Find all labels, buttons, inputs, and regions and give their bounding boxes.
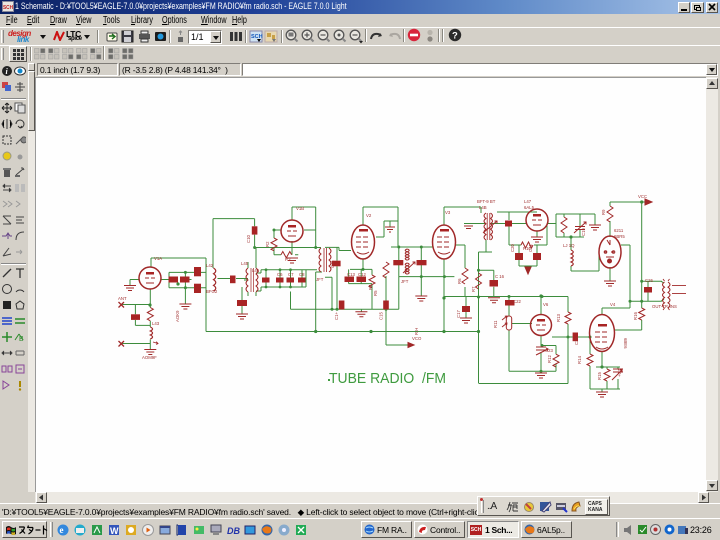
- svg-text:C26: C26: [645, 278, 653, 283]
- svg-text:C13: C13: [347, 272, 355, 277]
- svg-text:L43: L43: [152, 321, 160, 326]
- svg-text:V3: V3: [445, 210, 451, 215]
- svg-text:6BR5: 6BR5: [614, 234, 625, 239]
- svg-text:C25: C25: [574, 337, 579, 345]
- svg-text:R10: R10: [523, 246, 531, 251]
- svg-text:R16: R16: [633, 312, 638, 320]
- svg-text:OUT-TRANS: OUT-TRANS: [652, 304, 677, 309]
- svg-text:TUBE RADIO /FM: TUBE RADIO /FM: [329, 370, 446, 387]
- svg-text:V1A: V1A: [154, 256, 162, 261]
- svg-text:C11: C11: [330, 260, 335, 268]
- svg-text:V4: V4: [610, 302, 616, 307]
- svg-text:R14: R14: [577, 356, 582, 364]
- svg-text:R3: R3: [285, 257, 291, 262]
- svg-text:ANT: ANT: [118, 296, 127, 301]
- svg-text:C7: C7: [288, 272, 294, 277]
- svg-text:L47: L47: [524, 199, 532, 204]
- svg-text:AOM9F: AOM9F: [142, 355, 157, 360]
- svg-text:C6: C6: [277, 272, 283, 277]
- svg-text:R13: R13: [556, 314, 561, 322]
- svg-text:R15: R15: [597, 372, 602, 380]
- svg-text:C22: C22: [513, 299, 521, 304]
- svg-text:R6: R6: [457, 278, 462, 284]
- svg-text:L4B: L4B: [479, 205, 487, 210]
- svg-text:VCC: VCC: [638, 194, 647, 199]
- svg-text:V2: V2: [366, 213, 372, 218]
- svg-text:e: e: [60, 525, 64, 535]
- svg-text:R2: R2: [265, 241, 270, 247]
- svg-text:R5: R5: [373, 290, 378, 296]
- svg-text:R.H: R.H: [414, 328, 419, 335]
- svg-text:6211: 6211: [614, 228, 624, 233]
- svg-text:6BE6: 6BE6: [623, 338, 628, 349]
- svg-text:LJ 1Q: LJ 1Q: [563, 243, 575, 248]
- svg-text:6AL5: 6AL5: [524, 205, 535, 210]
- svg-text:JFT: JFT: [401, 279, 409, 284]
- svg-text:VCO: VCO: [412, 336, 422, 341]
- svg-text:V6: V6: [543, 302, 549, 307]
- svg-text:AOK9: AOK9: [175, 310, 180, 322]
- svg-text:W: W: [110, 526, 119, 536]
- svg-text:DB: DB: [227, 526, 240, 536]
- svg-text:+C7: +C7: [617, 368, 622, 377]
- svg-text:C20: C20: [510, 244, 515, 252]
- svg-text:B: B: [19, 336, 24, 343]
- svg-text:C19: C19: [581, 228, 586, 236]
- svg-text:L42: L42: [206, 263, 214, 268]
- svg-text:C10: C10: [246, 235, 251, 243]
- svg-text:C17: C17: [456, 310, 461, 318]
- svg-text:C15: C15: [379, 312, 384, 320]
- svg-text:L45: L45: [241, 261, 249, 266]
- svg-text:R11: R11: [493, 320, 498, 328]
- svg-text:JFT: JFT: [316, 277, 324, 282]
- svg-text:C1+: C1+: [334, 312, 339, 320]
- svg-text:C12: C12: [358, 272, 366, 277]
- svg-text:R4: R4: [368, 284, 373, 290]
- svg-text:?: ?: [452, 31, 458, 42]
- svg-text:R12: R12: [547, 355, 552, 363]
- svg-text:L46: L46: [252, 268, 260, 273]
- svg-text:R9: R9: [601, 209, 606, 215]
- svg-text:R7: R7: [471, 286, 476, 292]
- svg-text:BFT-9 BT: BFT-9 BT: [477, 199, 496, 204]
- svg-text:C 16: C 16: [495, 274, 505, 279]
- svg-text:C8: C8: [299, 272, 305, 277]
- svg-text:BFO2: BFO2: [206, 289, 218, 294]
- svg-text:V1B: V1B: [296, 206, 304, 211]
- svg-text:SCH: SCH: [3, 5, 13, 11]
- svg-text:C23: C23: [545, 348, 553, 353]
